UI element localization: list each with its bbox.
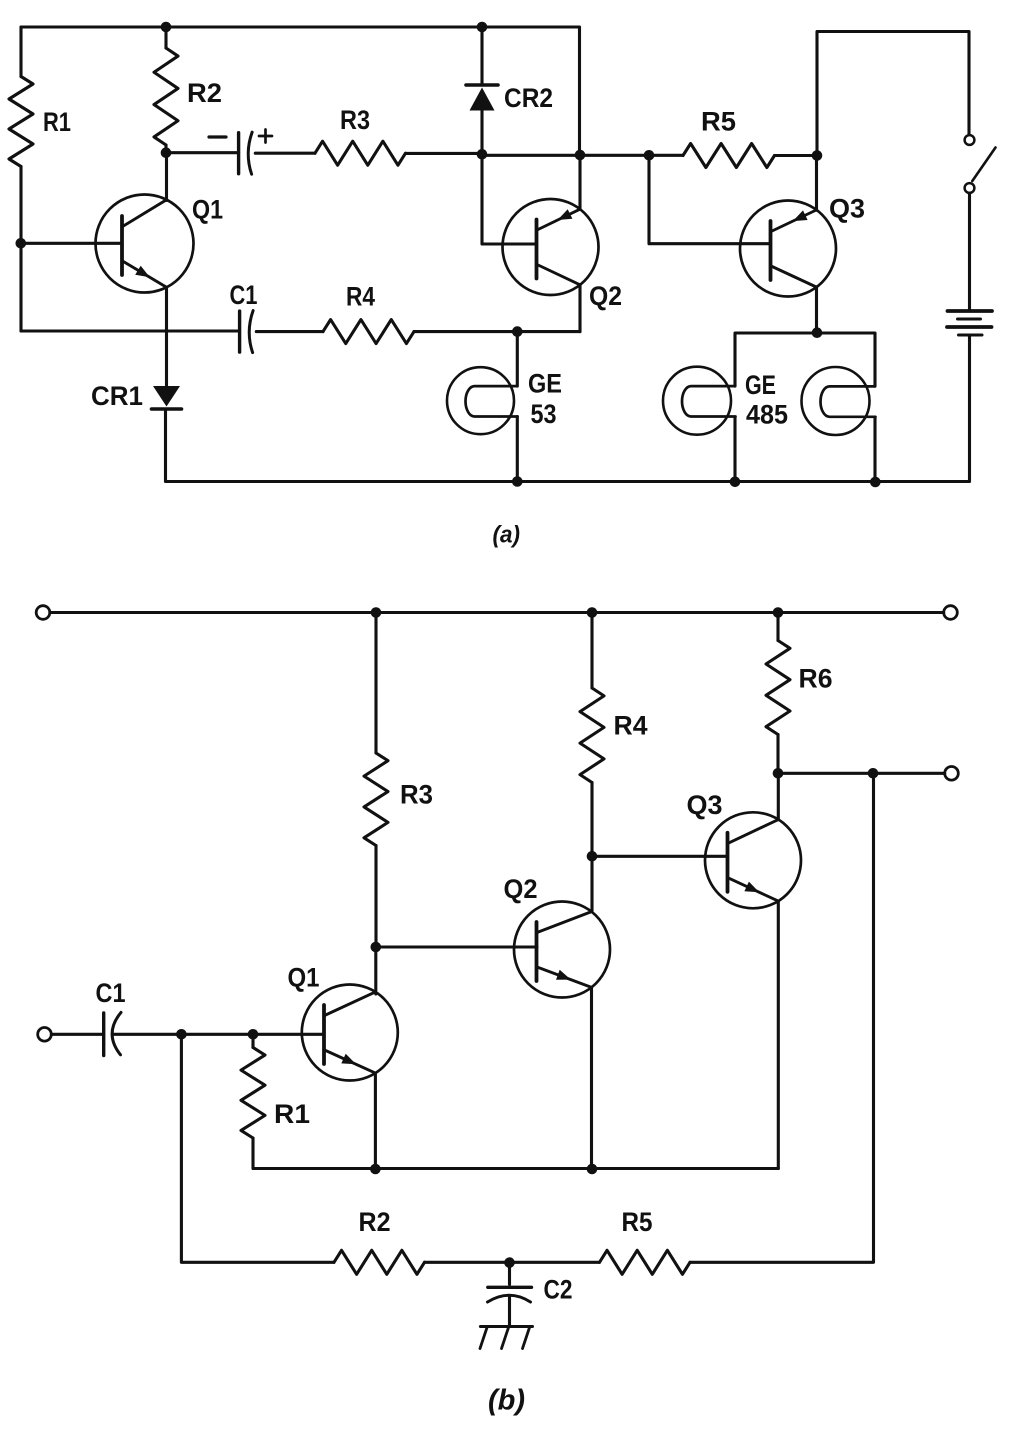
svg-text:R4: R4 bbox=[614, 711, 648, 741]
junction bbox=[870, 477, 881, 488]
wire bbox=[735, 333, 875, 386]
junction bbox=[15, 238, 26, 249]
svg-text:Q2: Q2 bbox=[589, 281, 622, 311]
wire bbox=[482, 153, 537, 244]
junction bbox=[773, 768, 784, 779]
junction bbox=[512, 476, 523, 487]
svg-text:R5: R5 bbox=[701, 107, 736, 137]
lamp GE 485 (right) bbox=[802, 367, 876, 435]
ground bbox=[480, 1327, 533, 1349]
terminal (input) bbox=[38, 1028, 52, 1042]
wire bbox=[590, 987, 593, 1169]
wire bbox=[19, 27, 22, 77]
terminal bbox=[944, 606, 958, 620]
wire bbox=[777, 901, 780, 1169]
junction bbox=[773, 607, 784, 618]
capacitor C1 (b) bbox=[96, 978, 126, 1056]
junction bbox=[477, 149, 488, 160]
wire bbox=[165, 153, 168, 201]
junction bbox=[371, 942, 382, 953]
wire bbox=[165, 288, 168, 387]
diode CR1 bbox=[91, 381, 182, 411]
svg-text:485: 485 bbox=[746, 400, 788, 430]
wire bbox=[733, 417, 736, 482]
wire bbox=[406, 152, 483, 155]
resistor R2 (b) bbox=[334, 1207, 425, 1274]
transistor Q2 bbox=[503, 199, 623, 311]
junction bbox=[161, 22, 172, 33]
resistor R5 bbox=[683, 107, 775, 168]
wire bbox=[482, 154, 683, 157]
junction bbox=[248, 1029, 259, 1040]
junction bbox=[587, 607, 598, 618]
svg-text:R3: R3 bbox=[400, 780, 433, 810]
label GE 485 bbox=[745, 370, 788, 430]
resistor R4 (b) bbox=[580, 613, 648, 857]
wire bbox=[578, 156, 581, 210]
wire bbox=[592, 855, 728, 858]
wire bbox=[21, 242, 122, 245]
resistor R5 (b) bbox=[600, 1207, 691, 1274]
junction bbox=[370, 1164, 381, 1175]
wire bbox=[777, 773, 780, 819]
junction bbox=[512, 326, 523, 337]
svg-text:GE: GE bbox=[745, 370, 776, 400]
svg-text:(b): (b) bbox=[488, 1385, 525, 1417]
resistor R3 (b) bbox=[364, 613, 433, 948]
junction bbox=[644, 150, 655, 161]
resistor R1 (b) bbox=[241, 1034, 310, 1168]
wire bbox=[256, 330, 323, 333]
junction bbox=[812, 327, 823, 338]
resistor R6 (b) bbox=[766, 613, 833, 774]
junction bbox=[575, 150, 586, 161]
svg-text:R2: R2 bbox=[359, 1207, 391, 1237]
wire bbox=[19, 167, 22, 332]
transistor Q1 bbox=[96, 195, 224, 293]
junction bbox=[730, 477, 741, 488]
wire bbox=[817, 32, 969, 156]
junction bbox=[587, 851, 598, 862]
wire bbox=[181, 1034, 334, 1262]
svg-text:R5: R5 bbox=[622, 1207, 653, 1237]
wire bbox=[578, 285, 581, 332]
wire bbox=[21, 27, 580, 155]
svg-text:R1: R1 bbox=[43, 107, 71, 137]
junction bbox=[812, 150, 823, 161]
svg-text:C1: C1 bbox=[230, 280, 258, 310]
wire bbox=[166, 337, 970, 482]
svg-text:C1: C1 bbox=[96, 978, 126, 1008]
junction bbox=[477, 22, 488, 33]
svg-text:C2: C2 bbox=[544, 1275, 573, 1305]
transistor Q1 (b) bbox=[288, 963, 398, 1081]
svg-text:53: 53 bbox=[531, 399, 557, 429]
svg-text:CR2: CR2 bbox=[504, 83, 553, 113]
wire bbox=[516, 332, 519, 387]
wire bbox=[374, 947, 377, 994]
junction bbox=[504, 1257, 515, 1268]
svg-text:R6: R6 bbox=[799, 664, 833, 694]
label (a) bbox=[493, 522, 521, 549]
wire bbox=[254, 1167, 779, 1170]
transistor Q2 (b) bbox=[504, 874, 611, 998]
wire bbox=[425, 1261, 600, 1264]
lamp GE 53 bbox=[447, 367, 562, 434]
svg-text:Q3: Q3 bbox=[687, 790, 723, 820]
svg-text:(a): (a) bbox=[493, 522, 521, 549]
wire bbox=[374, 1074, 377, 1169]
svg-text:Q1: Q1 bbox=[192, 195, 223, 225]
wire bbox=[815, 156, 818, 211]
svg-text:Q1: Q1 bbox=[288, 963, 320, 993]
junction bbox=[161, 147, 172, 158]
wire bbox=[815, 287, 818, 333]
capacitor (electrolytic) bbox=[209, 130, 272, 175]
wire bbox=[376, 945, 537, 948]
svg-text:R1: R1 bbox=[274, 1099, 310, 1129]
wire bbox=[50, 611, 944, 614]
junction bbox=[868, 768, 879, 779]
diode CR2 bbox=[466, 28, 553, 153]
capacitor C1 bbox=[230, 280, 258, 353]
wire bbox=[113, 1033, 324, 1036]
svg-text:GE: GE bbox=[528, 369, 562, 399]
svg-text:Q2: Q2 bbox=[504, 874, 538, 904]
resistor R2 bbox=[154, 27, 222, 153]
wire bbox=[778, 772, 945, 775]
resistor R1 bbox=[9, 77, 71, 167]
lamp GE 485 (left) bbox=[663, 367, 736, 435]
junction bbox=[587, 1164, 598, 1175]
wire bbox=[166, 151, 239, 154]
wire bbox=[690, 773, 874, 1262]
wire bbox=[775, 154, 818, 157]
svg-text:R2: R2 bbox=[187, 78, 222, 108]
wire bbox=[51, 1033, 103, 1036]
svg-text:R4: R4 bbox=[346, 282, 375, 312]
svg-text:CR1: CR1 bbox=[91, 381, 143, 411]
transistor Q3 (b) bbox=[687, 790, 802, 908]
terminal (output) bbox=[945, 767, 959, 781]
transistor Q3 bbox=[740, 194, 865, 297]
wire bbox=[516, 417, 519, 482]
wire bbox=[414, 330, 580, 333]
capacitor C2 (b) bbox=[488, 1263, 573, 1327]
wire bbox=[649, 156, 771, 244]
battery bbox=[947, 311, 992, 335]
resistor R4 bbox=[323, 282, 414, 344]
svg-text:R3: R3 bbox=[340, 105, 370, 135]
wire bbox=[968, 193, 971, 310]
wire bbox=[873, 417, 876, 482]
svg-text:Q3: Q3 bbox=[829, 194, 865, 224]
switch bbox=[965, 135, 996, 193]
wire bbox=[21, 329, 239, 332]
resistor R3 bbox=[315, 105, 406, 165]
wire bbox=[255, 152, 315, 155]
label (b) bbox=[488, 1385, 525, 1417]
terminal (input +) bbox=[36, 606, 50, 620]
wire bbox=[590, 856, 593, 911]
junction bbox=[176, 1029, 187, 1040]
junction bbox=[371, 607, 382, 618]
